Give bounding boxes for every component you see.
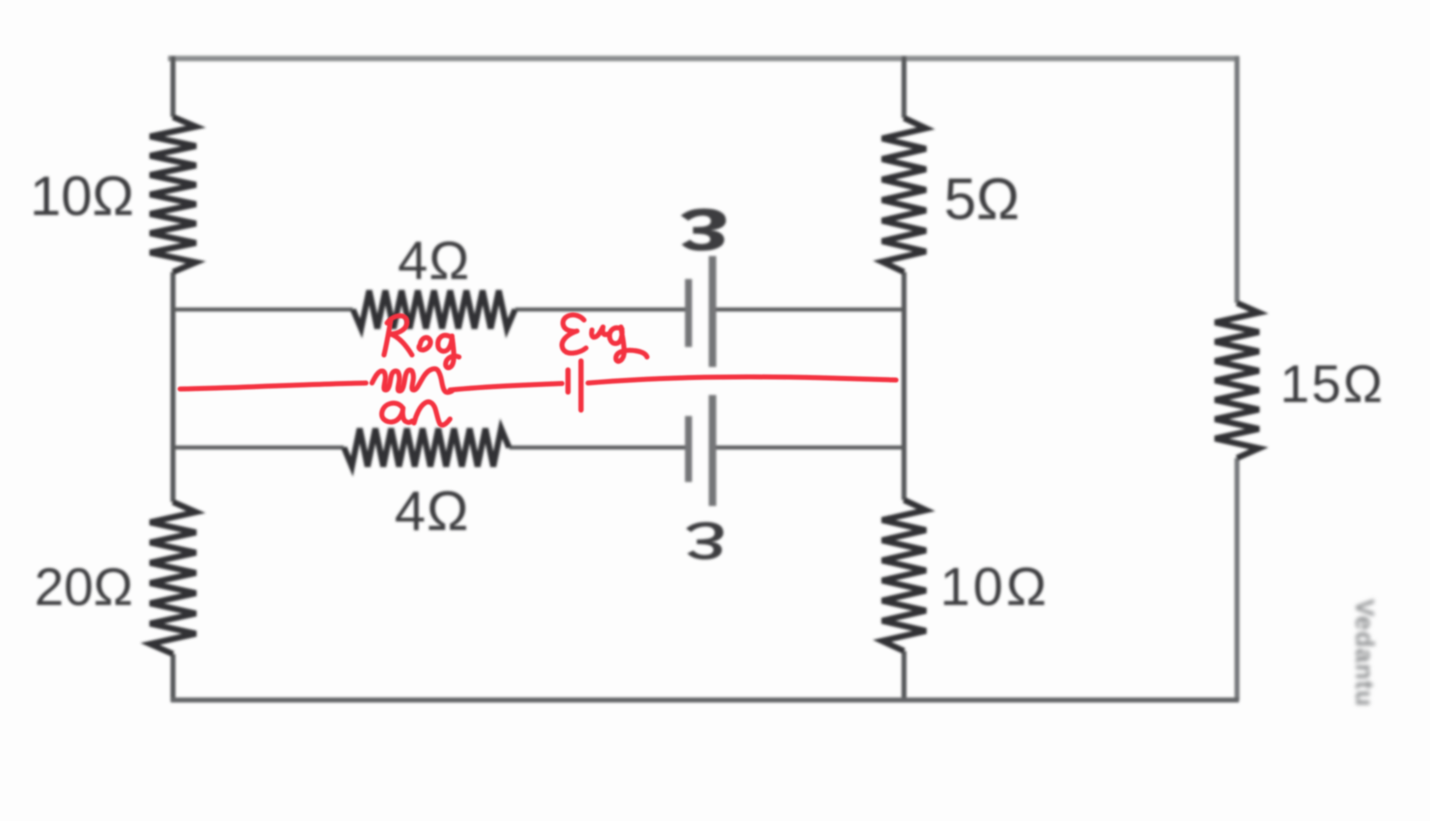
wire: top rail	[168, 56, 1239, 62]
battery ε (upper branch): short negative plate	[685, 279, 692, 347]
wire: left rail (three segments around resistors)	[171, 56, 176, 702]
resistor 4Ω (upper branch)	[353, 291, 515, 329]
resistor 20Ω (bottom-left)	[150, 502, 196, 654]
battery ε (lower branch): short negative plate	[685, 416, 692, 482]
resistor 4Ω (lower branch)	[344, 429, 509, 467]
red resistor Req (hand squiggle)	[372, 369, 452, 393]
red label Req (handwritten)	[384, 316, 459, 368]
red wire: right of εeq to middle rail	[588, 377, 896, 383]
battery ε (lower branch): long positive plate	[709, 395, 717, 506]
resistor 10Ω (top-left)	[150, 117, 196, 272]
red label εeq (handwritten)	[562, 315, 647, 361]
red label 2Ω (handwritten value of Req)	[382, 402, 450, 425]
wire: lower middle branch	[173, 446, 904, 450]
red wire: equivalent-circuit lead (left of Req)	[180, 383, 366, 389]
resistor 15Ω (right rail)	[1215, 303, 1259, 458]
svg-text:10Ω: 10Ω	[940, 557, 1049, 617]
svg-text:ε: ε	[679, 192, 730, 279]
wire: upper middle branch	[173, 308, 904, 312]
svg-text:10Ω: 10Ω	[30, 164, 134, 227]
svg-text:4Ω: 4Ω	[398, 231, 470, 291]
wire: middle vertical rail	[902, 56, 907, 702]
svg-text:ε: ε	[684, 508, 726, 585]
svg-text:15Ω: 15Ω	[1280, 355, 1385, 414]
battery ε (upper branch): long positive plate	[709, 256, 717, 367]
red battery εeq: long plate	[578, 361, 583, 410]
svg-text:5Ω: 5Ω	[944, 167, 1020, 232]
svg-text:4Ω: 4Ω	[394, 479, 469, 542]
resistor 10Ω (middle rail bottom)	[882, 500, 926, 651]
wire: bottom rail	[171, 698, 1239, 703]
svg-text:20Ω: 20Ω	[34, 558, 133, 617]
svg-text:Vedantu: Vedantu	[1350, 599, 1380, 707]
wire: right rail	[1235, 56, 1240, 700]
red battery εeq: short plate	[565, 370, 570, 392]
resistor 5Ω (middle rail top)	[882, 118, 926, 272]
red wire: between Req and εeq	[450, 384, 562, 391]
